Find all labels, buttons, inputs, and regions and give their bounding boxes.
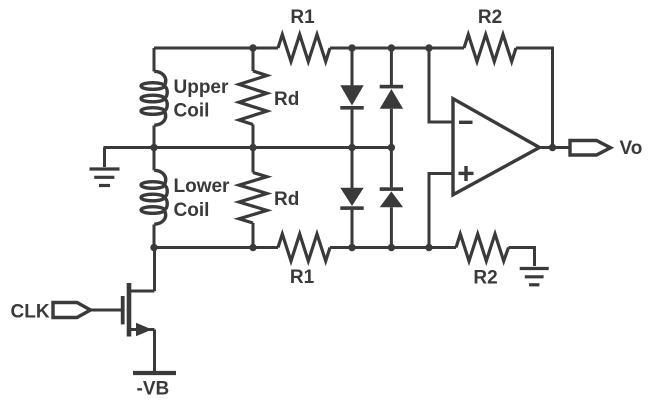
diode D1 (upper left, anode up) [340, 48, 363, 148]
node dot mid rail at Rd [249, 144, 256, 151]
svg-text:Lower: Lower [174, 176, 231, 197]
power -VB [133, 373, 176, 400]
diode D2 (upper right, cathode up) [380, 48, 403, 148]
wire bottom rail middle segment [330, 246, 456, 249]
op-amp U1 [453, 99, 540, 195]
ground (right, below R2) [520, 269, 549, 285]
wire from R2 to right ground [509, 248, 535, 267]
wire from top rail to inverting input [429, 48, 452, 122]
svg-text:R1: R1 [290, 7, 315, 28]
diode D4 (lower right, cathode up) [380, 148, 403, 248]
inductor Upper Coil [141, 48, 229, 148]
node dot bottom rail at coil [150, 244, 157, 251]
node dot top rail at inverting tap [425, 44, 432, 51]
resistor R2 (top feedback) [464, 7, 516, 62]
svg-text:R2: R2 [473, 268, 497, 289]
wire bottom rail left segment [154, 246, 278, 249]
wire top rail middle segment [330, 47, 464, 50]
svg-text:Coil: Coil [174, 200, 210, 221]
resistor Rd (lower damping) [239, 148, 299, 248]
resistor R1 (bottom) [278, 234, 330, 288]
resistor Rd (upper damping) [239, 48, 299, 148]
svg-text:Rd: Rd [274, 89, 299, 110]
inductor Lower Coil [141, 148, 230, 248]
node dot bottom rail at Rd [249, 244, 256, 251]
wire feedback from R2 down to output node [516, 48, 553, 148]
wire top rail left segment [154, 47, 278, 50]
svg-text:Coil: Coil [174, 101, 210, 122]
svg-text:Vo: Vo [620, 138, 643, 159]
ground (left, on mid rail) [90, 148, 120, 186]
svg-text:R2: R2 [478, 7, 502, 28]
svg-text:-VB: -VB [137, 379, 170, 400]
node dot bottom rail at non-inverting tap [425, 244, 432, 251]
svg-text:CLK: CLK [11, 302, 50, 323]
node dot bottom rail at D4 [388, 244, 395, 251]
node dot top rail at D1 [348, 44, 355, 51]
terminal Vo [570, 138, 642, 159]
svg-text:Rd: Rd [274, 189, 299, 210]
wire from bottom rail to non-inverting input [429, 174, 452, 248]
wire op-amp output [540, 146, 571, 149]
node dot output [549, 144, 556, 151]
svg-text:Upper: Upper [174, 77, 230, 98]
wire mid rail (ground rail) [104, 146, 392, 149]
svg-text:R1: R1 [290, 267, 315, 288]
node dot mid rail at D2 [388, 144, 395, 151]
resistor R1 (top) [278, 7, 330, 62]
node dot bottom rail at D3 [348, 244, 355, 251]
diode D3 (lower left, anode up) [340, 148, 363, 248]
node dot mid rail at D1 [348, 144, 355, 151]
node dot top rail at Rd [249, 44, 256, 51]
node dot top rail at D2 [388, 44, 395, 51]
node dot mid rail at coils [150, 144, 157, 151]
terminal CLK [11, 302, 91, 323]
transistor Q1 (NMOS) [91, 248, 155, 372]
resistor R2 (bottom) [456, 234, 509, 289]
